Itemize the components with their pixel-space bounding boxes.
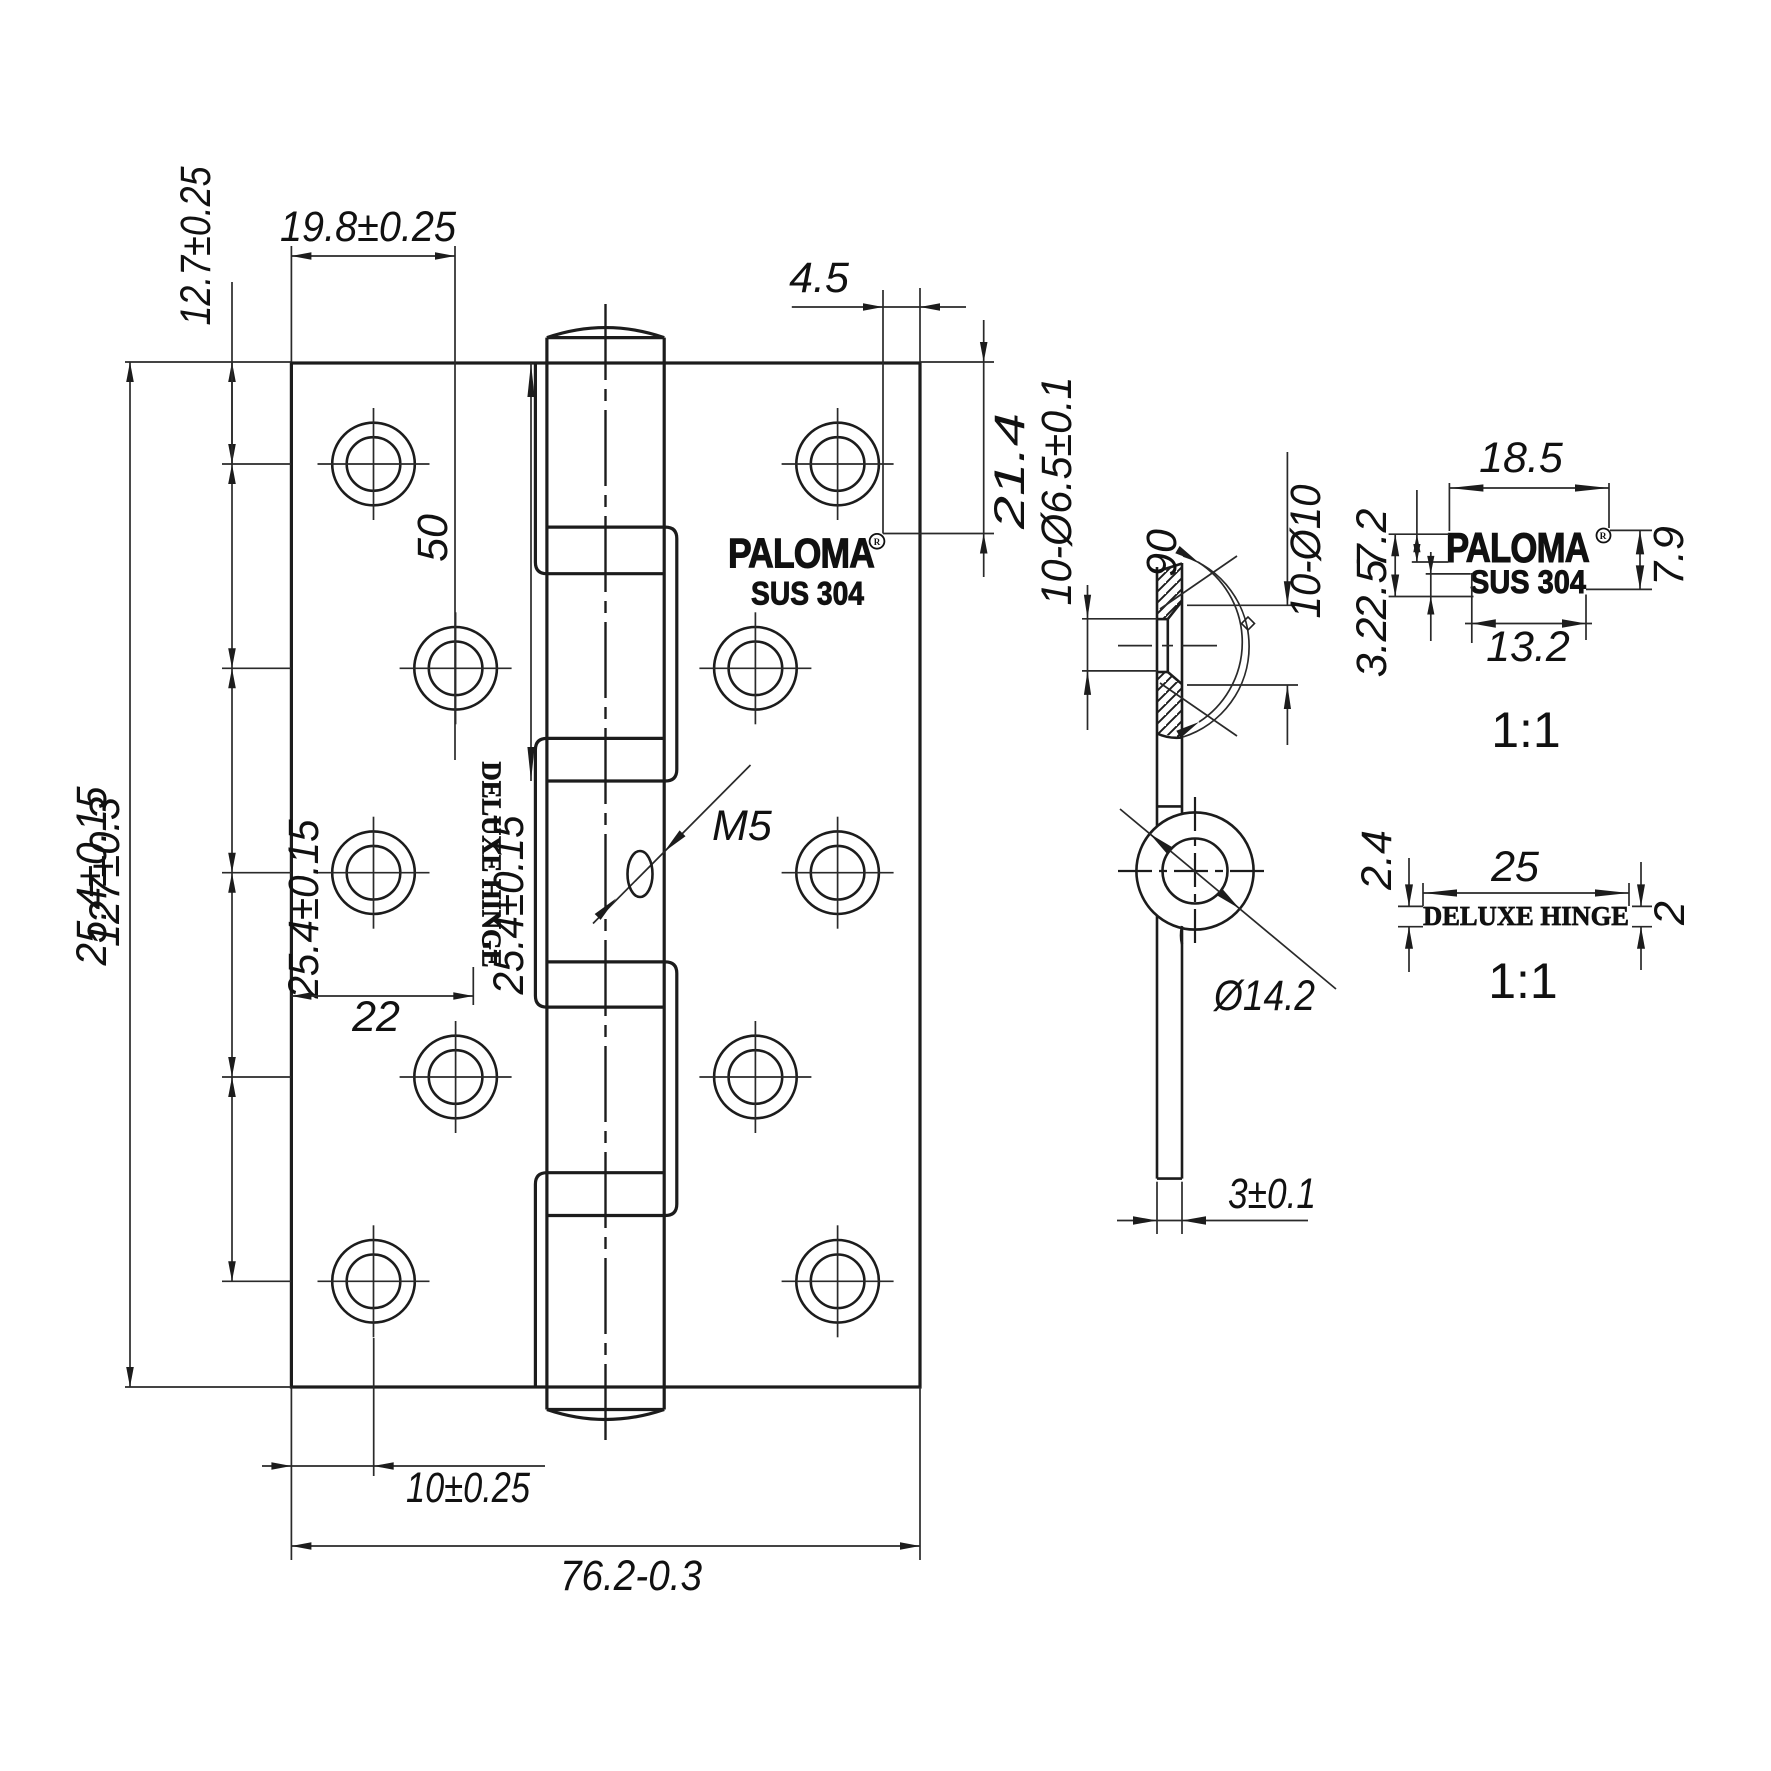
hole row5 left (Ø10 c'sink, Ø6.5 thru) — [332, 1240, 415, 1323]
svg-text:SUS 304: SUS 304 — [1470, 564, 1586, 600]
knuckle joint tick (side view) — [1157, 805, 1182, 808]
dim 25.4 arrows 464-668 — [228, 464, 236, 484]
countersink hatch upper — [1157, 564, 1182, 620]
left leaf knuckle K1 outline — [535, 363, 664, 574]
dim 2.5 line — [1430, 552, 1432, 641]
hole row5 right (Ø10 c'sink, Ø6.5 thru) — [796, 1240, 879, 1323]
right leaf knuckle K2 outline — [547, 527, 677, 781]
dim 10-Ø10 — [1187, 604, 1299, 606]
dim 7.9 (stamp total height) — [1610, 529, 1652, 531]
section strip right edge — [1181, 563, 1184, 814]
dim 19.8±0.25 (edge to 2nd hole column) — [290, 246, 292, 362]
dim Ø14.2 leader — [1120, 809, 1336, 989]
hole row extension line 3 — [222, 872, 291, 874]
dim 25.4 arrows 873-1077 — [228, 873, 236, 893]
hole row2 right (Ø10 c'sink, Ø6.5 thru) — [714, 627, 797, 710]
detail stamp sub-height extension lines — [1389, 533, 1449, 535]
dim 25.4 arrows 668-873 — [228, 668, 236, 688]
knuckle circle centerlines — [1118, 870, 1270, 872]
svg-text:25: 25 — [1490, 843, 1540, 891]
svg-text:M5: M5 — [712, 802, 773, 850]
dim 7.2 line — [1394, 534, 1396, 596]
svg-text:2.5: 2.5 — [1348, 559, 1396, 621]
knuckle section outer circle — [1136, 812, 1253, 929]
dim 2.4 (left stamp height) — [1398, 905, 1423, 907]
dim 10±0.25 (edge to 1st hole column) — [373, 1338, 375, 1476]
countersink angle construction lines — [1160, 556, 1237, 609]
dim chain line 25.4 pitch — [231, 362, 233, 1281]
svg-text:13.2: 13.2 — [1486, 623, 1570, 671]
dim 3±0.1 (leaf thickness) — [1156, 1182, 1158, 1234]
right leaf knuckle K4 outline — [547, 962, 677, 1216]
hole row extension line 5 — [222, 1280, 291, 1282]
svg-text:DELUXE HINGE: DELUXE HINGE — [1423, 901, 1629, 931]
hole row extension line 2 — [222, 667, 291, 669]
angle dim arc 90 — [1198, 562, 1242, 722]
svg-text:10-Ø6.5±0.1: 10-Ø6.5±0.1 — [1033, 377, 1081, 606]
knuckle-strip fillet — [1181, 926, 1182, 944]
svg-text:10±0.25: 10±0.25 — [406, 1464, 531, 1512]
svg-text:18.5: 18.5 — [1479, 434, 1564, 482]
svg-text:21.4: 21.4 — [986, 413, 1034, 530]
knuckle section pin bore — [1163, 839, 1228, 904]
svg-text:19.8±0.25: 19.8±0.25 — [280, 203, 457, 251]
svg-text:7.9: 7.9 — [1645, 526, 1693, 586]
dim 25 (stamp width) — [1422, 883, 1424, 906]
svg-text:3.2: 3.2 — [1348, 618, 1396, 678]
dim 50 (knuckle) — [530, 363, 532, 781]
dim 3.2 line — [1416, 490, 1418, 562]
svg-text:1:1: 1:1 — [1488, 953, 1558, 1009]
section strip bottom end — [1157, 1177, 1182, 1180]
hole row1 left (Ø10 c'sink, Ø6.5 thru) — [332, 423, 415, 506]
svg-text:7.2: 7.2 — [1348, 509, 1396, 569]
left leaf knuckle K3 outline — [535, 738, 664, 1007]
dim 22 (edge to stamp) — [472, 967, 474, 1005]
svg-text:4.5: 4.5 — [789, 254, 850, 302]
svg-text:22: 22 — [351, 993, 400, 1041]
dim 10-Ø6.5±0.1 — [1082, 618, 1157, 620]
barrel centerline — [604, 304, 606, 1440]
svg-text:SUS 304: SUS 304 — [751, 576, 864, 612]
left leaf knuckle K5 outline — [535, 1173, 664, 1387]
hole row2 left (Ø10 c'sink, Ø6.5 thru) — [414, 627, 497, 710]
M5 thread callout leader — [593, 765, 751, 924]
hole row extension line 4 — [222, 1076, 291, 1078]
svg-text:12.7±0.25: 12.7±0.25 — [172, 166, 220, 326]
svg-text:90: 90 — [1138, 529, 1186, 577]
plate outline (front view) — [291, 363, 920, 1387]
svg-text:10-Ø10: 10-Ø10 — [1282, 484, 1330, 618]
hole row3 left (Ø10 c'sink, Ø6.5 thru) — [332, 831, 415, 914]
hole row extension line 1 — [222, 463, 291, 465]
dim 76.2-0.3 overall width — [290, 1387, 292, 1560]
svg-text:Ø14.2: Ø14.2 — [1212, 972, 1315, 1020]
section strip top end — [1157, 564, 1182, 572]
hole row4 right (Ø10 c'sink, Ø6.5 thru) — [714, 1036, 797, 1119]
hole row1 right (Ø10 c'sink, Ø6.5 thru) — [796, 423, 879, 506]
dim 12.7±0.25 (top edge to first hole row) — [231, 282, 233, 464]
svg-text:R: R — [1600, 532, 1607, 542]
svg-text:2: 2 — [1646, 901, 1694, 926]
hinge pin tube left edge — [545, 338, 548, 1410]
M5 oil hole ellipse — [628, 851, 653, 897]
section strip left edge — [1156, 567, 1159, 826]
hole centerline (section) — [1118, 645, 1152, 647]
hole row4 left (Ø10 c'sink, Ø6.5 thru) — [414, 1036, 497, 1119]
svg-text:25.4±0.15: 25.4±0.15 — [68, 785, 116, 966]
hole row3 right (Ø10 c'sink, Ø6.5 thru) — [796, 831, 879, 914]
svg-text:PALOMA: PALOMA — [728, 530, 875, 577]
countersink hatch lower — [1157, 672, 1182, 738]
dim 21.4 (top edge to stamp) — [920, 361, 994, 363]
svg-text:76.2-0.3: 76.2-0.3 — [560, 1552, 702, 1600]
svg-text:3±0.1: 3±0.1 — [1228, 1170, 1316, 1218]
arc center diamond mark — [1241, 617, 1254, 630]
svg-text:25.4±0.15: 25.4±0.15 — [485, 814, 533, 995]
svg-text:R: R — [874, 537, 881, 547]
dim 127±0.3 overall height — [125, 361, 291, 363]
svg-text:25.4±0.15: 25.4±0.15 — [280, 818, 328, 999]
dim 4.5 (stamp to right edge) — [882, 290, 884, 534]
dim 2 (right stamp height) — [1632, 905, 1652, 907]
dim 13.2 (SUS width) — [1471, 573, 1473, 643]
pin bottom cap — [547, 1408, 664, 1411]
svg-text:1:1: 1:1 — [1491, 702, 1561, 758]
detail break arc — [1183, 556, 1249, 737]
svg-text:2.4: 2.4 — [1353, 830, 1401, 891]
dim 25.4 arrows 1077-1281 — [228, 1077, 236, 1097]
svg-text:50: 50 — [409, 514, 457, 562]
dim 18.5 (logo width) — [1448, 483, 1450, 531]
pin top cap — [547, 336, 664, 339]
countersink bore edge — [1167, 619, 1170, 672]
hinge pin tube right edge — [663, 338, 666, 1410]
